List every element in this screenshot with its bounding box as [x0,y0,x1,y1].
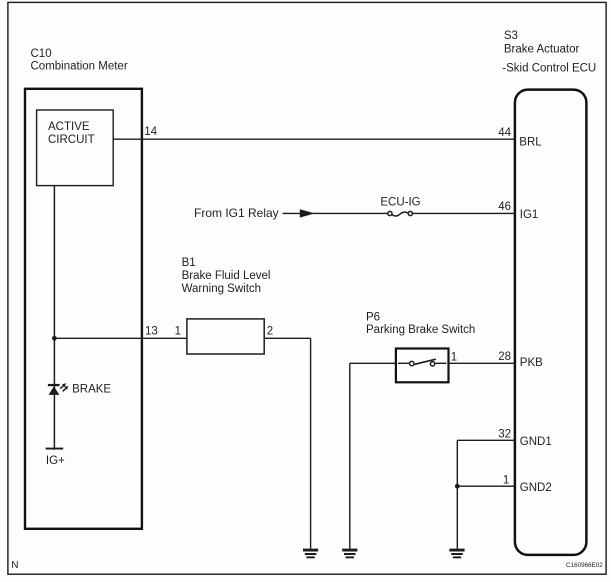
svg-text:BRAKE: BRAKE [72,384,111,396]
active circuit U1 [37,110,114,186]
label P6 Parking Brake Switch [366,311,475,336]
switch B1 box [187,319,264,354]
svg-text:Brake Actuator: Brake Actuator [504,43,580,55]
ground for ECU [449,549,464,559]
svg-text:1: 1 [175,326,181,338]
svg-text:14: 14 [144,126,157,138]
svg-text:Parking Brake Switch: Parking Brake Switch [366,324,475,336]
wire GND1 GND2 to ground [456,440,458,549]
wire B1 pin 2 to ground [264,338,310,549]
svg-text:CIRCUIT: CIRCUIT [48,134,95,146]
ground for P6 [342,549,357,559]
svg-text:28: 28 [498,351,511,363]
connector C10 box [25,89,142,529]
svg-text:Warning Switch: Warning Switch [182,283,261,295]
svg-text:C10: C10 [31,48,52,60]
svg-text:N: N [11,560,18,571]
svg-text:BRL: BRL [519,136,542,148]
svg-text:46: 46 [498,201,511,213]
wire fuse to IG1 [413,212,515,214]
LED diode BRAKE [48,384,60,395]
wire BRL (pin 14 to pin 44) [113,138,515,140]
wire pin 13 to B1 pin 1 [54,337,187,339]
wire P6 to PKB [449,362,515,364]
label S3 Brake Actuator [502,30,596,75]
svg-text:ECU-IG: ECU-IG [380,197,420,209]
switch P6 [396,349,449,383]
svg-text:ACTIVE: ACTIVE [48,121,90,133]
wire IG1 segment with arrow [283,209,388,217]
power IG+ terminal [46,448,64,450]
label B1 Brake Fluid Level Warning Switch [182,257,271,295]
svg-text:IG1: IG1 [520,209,539,221]
svg-text:PKB: PKB [520,357,543,369]
svg-text:32: 32 [498,428,511,440]
wire active circuit to IG+ [53,186,55,450]
arrow [300,209,315,217]
svg-text:-Skid Control ECU: -Skid Control ECU [502,63,596,75]
svg-text:C160966E02: C160966E02 [566,562,603,569]
ground for B1 [303,549,318,559]
ECU connector S3 box [515,90,587,555]
svg-text:1: 1 [503,474,509,486]
LED light arrows [60,383,68,391]
svg-text:GND2: GND2 [520,482,552,494]
svg-text:2: 2 [267,326,273,338]
svg-text:13: 13 [145,326,158,338]
wire GND1 [457,439,515,441]
junction node at active circuit wire [52,336,57,341]
svg-text:1: 1 [451,351,457,363]
svg-text:S3: S3 [504,30,518,42]
wire GND2 [457,485,515,487]
svg-text:Combination Meter: Combination Meter [31,61,128,73]
junction node GND2 [455,484,460,489]
fuse ECU-IG [388,211,413,216]
svg-text:From IG1 Relay: From IG1 Relay [194,206,279,220]
svg-text:P6: P6 [366,311,380,323]
svg-text:GND1: GND1 [520,436,552,448]
svg-text:B1: B1 [182,257,196,269]
wire ground to P6 [350,363,396,549]
label C10 Combination Meter [31,48,128,73]
svg-text:IG+: IG+ [46,455,65,467]
svg-text:44: 44 [498,127,511,139]
svg-text:Brake Fluid Level: Brake Fluid Level [182,270,271,282]
